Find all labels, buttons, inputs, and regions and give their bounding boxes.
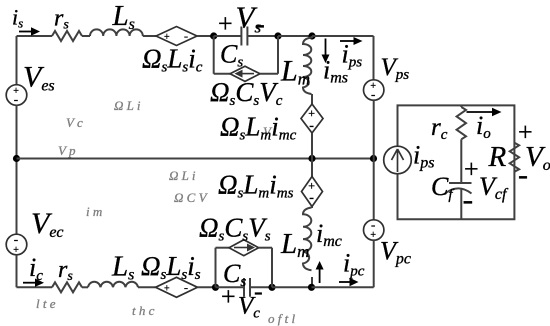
wire diamond to node A bbox=[197, 35, 214, 37]
svg-text:V p: V p bbox=[58, 143, 76, 158]
resistor R bbox=[510, 143, 519, 172]
svg-text:-: - bbox=[518, 159, 528, 192]
svg-text:ΩsCsVc: ΩsCsVc bbox=[210, 77, 283, 109]
dependent source diamond (Omega_s L_m i_mc) bbox=[301, 104, 323, 133]
svg-text:+: + bbox=[221, 282, 236, 311]
dependent source diamond (Omega_s L_s i_c) bbox=[156, 27, 197, 46]
arrow i_s bbox=[19, 31, 32, 33]
svg-text:ΩsLsis: ΩsLsis bbox=[141, 251, 201, 283]
wire loop left vertical bbox=[213, 36, 215, 74]
bottom rail left segment bbox=[17, 286, 53, 288]
svg-text:ΩsCsVs: ΩsCsVs bbox=[199, 213, 271, 245]
inductor L_m (upper) bbox=[303, 38, 312, 95]
source V_ec bbox=[6, 234, 27, 255]
dependent source diamond (Omega_s L_m i_ms) bbox=[302, 177, 323, 207]
svg-text:+: + bbox=[164, 283, 170, 294]
wire left rail top bbox=[16, 36, 18, 85]
svg-text:+: + bbox=[464, 155, 479, 184]
wire output middle branch top bbox=[460, 105, 462, 107]
node E (middle branch mid junction) bbox=[308, 155, 315, 162]
node C bbox=[308, 32, 315, 39]
source V_ps bbox=[364, 80, 384, 100]
wire diamond to node G bbox=[198, 286, 216, 288]
svg-text:V c: V c bbox=[66, 115, 83, 130]
wire left rail middle bbox=[16, 105, 18, 234]
wire capacitor to node B bbox=[247, 35, 278, 37]
svg-text:Ω L i: Ω L i bbox=[114, 98, 141, 113]
dependent current source diamond (Omega_s C_s V_c) bbox=[230, 66, 260, 81]
inductor L_s (top) bbox=[90, 29, 143, 36]
svg-text:-: - bbox=[14, 92, 18, 107]
wire loop top left (bottom) bbox=[216, 247, 230, 249]
node D (left mid junction) bbox=[13, 155, 20, 162]
wire diamond to middle rail bbox=[311, 133, 313, 159]
arrow i_pc bbox=[339, 281, 351, 283]
inductor L_s (bottom) bbox=[88, 282, 138, 288]
wire node G to capacitor C_s (bottom) bbox=[216, 286, 245, 288]
svg-text:+: + bbox=[218, 9, 233, 38]
svg-text:l t e: l t e bbox=[36, 296, 56, 311]
svg-text:-: - bbox=[463, 181, 474, 217]
svg-text:-: - bbox=[309, 191, 314, 206]
capacitor C_f bottom plate (curved) bbox=[445, 188, 472, 194]
right rail middle bbox=[373, 100, 375, 220]
svg-text:ΩsLsic: ΩsLsic bbox=[142, 44, 203, 76]
wire loop right vertical (bottom) bbox=[271, 248, 273, 288]
wire L_m lower to bottom rail bbox=[311, 277, 313, 287]
wire C_f to bottom bbox=[460, 190, 462, 220]
svg-text:-: - bbox=[184, 29, 188, 43]
arrow i_ms bbox=[325, 39, 327, 56]
wire node C to right rail bbox=[312, 35, 374, 37]
wire L_m to diamond bbox=[311, 94, 313, 104]
wire loop bottom left bbox=[214, 73, 230, 75]
wire r_c to C_f bbox=[460, 139, 462, 183]
dependent source diamond (Omega_s L_s i_s) bbox=[156, 277, 198, 297]
inductor L_m (lower) bbox=[303, 208, 312, 271]
svg-text:+: + bbox=[13, 245, 19, 256]
node G bbox=[212, 284, 219, 291]
right rail top bbox=[373, 36, 375, 80]
svg-text:-: - bbox=[309, 119, 314, 134]
arrow i_c bbox=[23, 282, 36, 284]
svg-text:Ω C V: Ω C V bbox=[174, 190, 209, 205]
wire r_s to L_s (bottom) bbox=[82, 286, 88, 288]
wire loop right vertical bbox=[277, 36, 279, 74]
resistor r_s (bottom) bbox=[52, 282, 82, 292]
svg-text:+: + bbox=[164, 32, 170, 43]
wire L_s to source diamond bbox=[143, 35, 156, 37]
wire left rail bottom bbox=[16, 255, 18, 287]
resistor r_c bbox=[457, 107, 466, 139]
node B bbox=[274, 32, 281, 39]
source V_es bbox=[6, 85, 27, 106]
wire top rail left segment bbox=[17, 35, 53, 37]
svg-text:o f t l: o f t l bbox=[268, 311, 295, 326]
wire loop left vertical (bottom) bbox=[215, 248, 217, 288]
node I bbox=[308, 284, 315, 291]
svg-text:-: - bbox=[254, 277, 263, 306]
dependent current source diamond (Omega_s C_s V_s) bbox=[229, 240, 259, 256]
wire node I to right rail (bottom) bbox=[312, 286, 374, 288]
wire node H to node I bbox=[272, 286, 312, 288]
svg-text:-: - bbox=[371, 87, 375, 102]
wire middle rail to lower diamond bbox=[311, 159, 313, 177]
wire node C down to L_m top bbox=[311, 36, 313, 38]
output network outline bbox=[398, 105, 515, 219]
wire middle rail bbox=[17, 158, 374, 160]
svg-text:i m: i m bbox=[86, 204, 102, 219]
node A bbox=[210, 32, 217, 39]
wire diamond to L_m lower bbox=[311, 207, 313, 209]
wire L_s to diamond (bottom) bbox=[138, 286, 156, 288]
svg-text:R: R bbox=[488, 141, 507, 173]
arrow i_mc (up) bbox=[319, 268, 321, 283]
current label i_o with vector arrow bbox=[467, 111, 493, 113]
svg-text:Ω L i: Ω L i bbox=[169, 168, 196, 183]
capacitor C_s (top) plates bbox=[241, 27, 247, 46]
source V_pc bbox=[364, 220, 384, 240]
wire node A to capacitor C_s (top) bbox=[214, 35, 242, 37]
right rail bottom bbox=[373, 240, 375, 287]
node H bbox=[268, 284, 275, 291]
wire capacitor to node H bbox=[250, 286, 272, 288]
wire loop bottom right bbox=[260, 73, 278, 75]
capacitor C_s (bottom) plates bbox=[244, 278, 250, 297]
svg-text:+: + bbox=[370, 230, 376, 241]
svg-text:t h c: t h c bbox=[132, 303, 155, 318]
wire between r_s and L_s (top) bbox=[82, 35, 90, 37]
current label i_ps with vector arrow bbox=[340, 40, 355, 42]
current source i_ps bbox=[384, 146, 412, 174]
wire loop top right (bottom) bbox=[259, 247, 272, 249]
node F (right rail mid junction) bbox=[370, 155, 377, 162]
capacitor C_f top plate bbox=[449, 182, 472, 184]
resistor r_s (top) bbox=[52, 31, 82, 41]
wire node B to node C bbox=[278, 35, 312, 37]
